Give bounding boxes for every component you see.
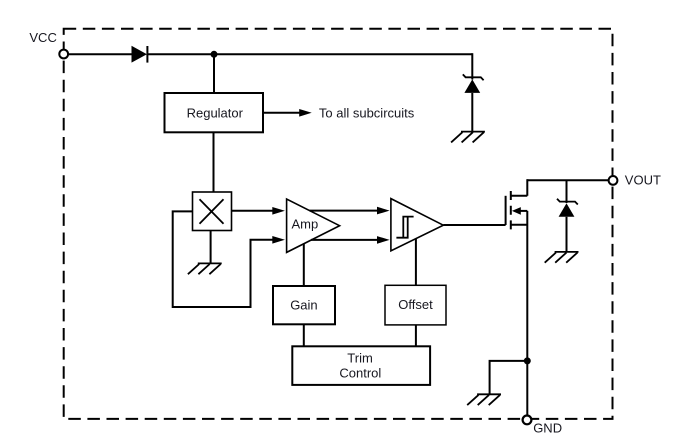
svg-text:To all subcircuits: To all subcircuits [319,105,415,120]
gain box [273,286,335,324]
diode D1 [132,46,148,63]
wire X box to ground [210,231,212,264]
wire junction to ground stub [490,361,528,394]
wire top rail down to zener D2 [471,53,473,79]
svg-text:Control: Control [339,365,381,380]
wire X box to amp input [232,207,285,215]
ground (below zener D3) [545,252,579,263]
arrow to subcircuits [263,109,312,117]
wire junction to regulator [213,54,215,93]
op-amp U2 [287,199,340,252]
offset box [385,285,446,325]
wire VCC to diode [68,53,132,55]
svg-text:VOUT: VOUT [625,173,661,188]
zener D2 [463,74,484,93]
wire source down to GND [526,211,528,416]
junction dot B [524,357,531,364]
feedback loop wire to amp inverting input [173,211,285,307]
multiplier (hall element) X box [193,192,232,231]
wire comparator output to gate [443,224,505,226]
VCC terminal [59,50,68,59]
wire amp to gain box [303,244,305,286]
svg-text:Trim: Trim [347,351,373,366]
ground (bottom, near GND pin) [467,394,501,405]
wire regulator to multiplier [213,132,215,192]
svg-text:Regulator: Regulator [187,106,244,121]
junction dot A [211,51,218,58]
regulator U1 [165,93,264,132]
wire gain to trim control [303,324,305,346]
svg-text:VCC: VCC [29,30,56,45]
svg-text:Amp: Amp [292,217,319,232]
trim control box [292,346,430,385]
comparator U3 (schmitt trigger) [391,199,443,251]
ground (top right) [451,132,485,143]
zener D3 [557,180,578,252]
wire diode to top-right corner [147,53,472,55]
GND terminal [523,416,532,425]
wire amp to comparator (lower) [311,236,390,244]
IC boundary dashed box [64,29,613,419]
wire zener D2 to ground [471,93,473,132]
wire drain to VOUT [527,179,608,181]
wire amp to comparator (upper) [310,207,390,215]
wire offset to trim control [415,325,417,346]
wire comparator to offset box [415,239,417,286]
svg-text:GND: GND [533,421,562,436]
transistor Q1 (output MOSFET) [506,179,528,230]
svg-text:Gain: Gain [290,298,317,313]
VOUT terminal [609,176,618,185]
svg-text:Offset: Offset [398,297,433,312]
ground (below X box) [188,263,222,274]
